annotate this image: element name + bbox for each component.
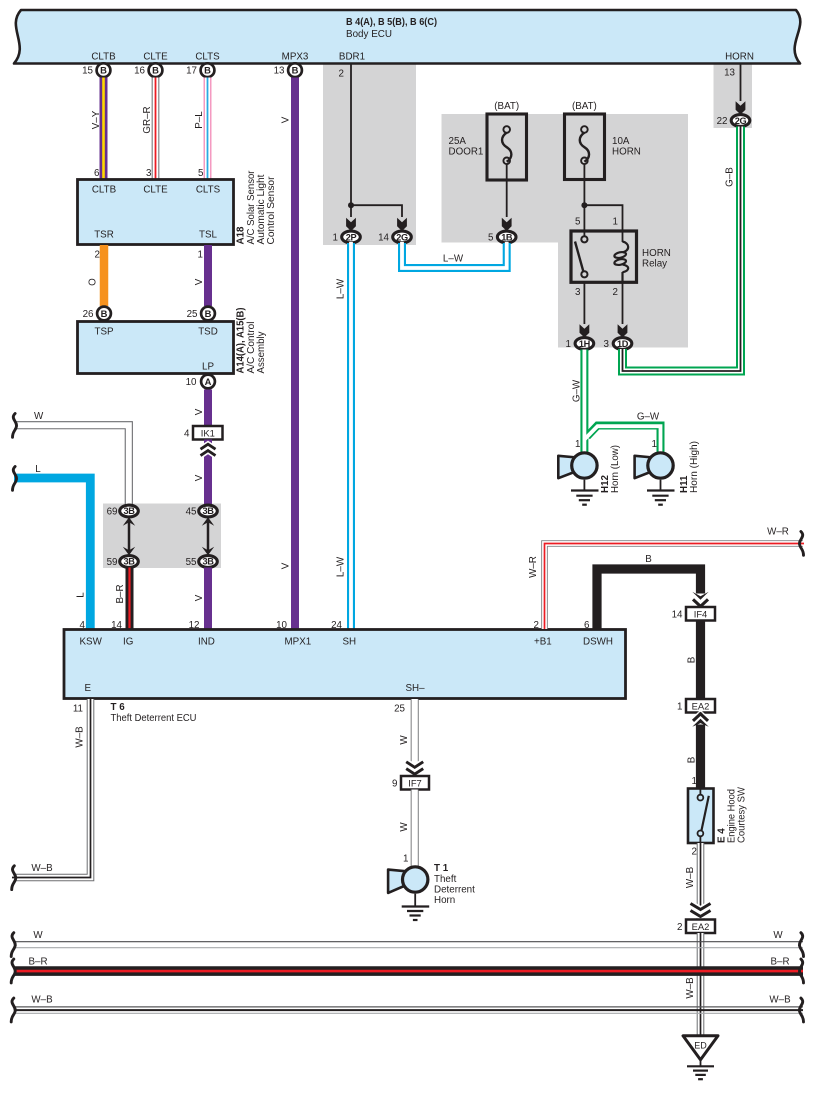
svg-text:1: 1 xyxy=(677,702,682,713)
label A18 A/C Solar Sensor xyxy=(236,170,278,245)
wire B DSWH to IF4 xyxy=(597,569,701,629)
svg-text:B: B xyxy=(687,656,698,663)
A/C control assembly A14 box xyxy=(78,322,234,374)
svg-text:W: W xyxy=(33,930,43,941)
svg-text:B: B xyxy=(100,65,107,76)
svg-text:GR–R: GR–R xyxy=(142,106,153,133)
svg-text:5: 5 xyxy=(488,233,494,244)
svg-text:SH–: SH– xyxy=(406,683,426,694)
svg-text:(BAT): (BAT) xyxy=(572,101,597,112)
pin 10 connector A xyxy=(186,375,215,389)
svg-text:L–W: L–W xyxy=(336,556,347,577)
connector 69 3B xyxy=(107,505,139,517)
svg-text:9: 9 xyxy=(392,779,397,790)
svg-text:B: B xyxy=(101,308,108,319)
svg-text:2G: 2G xyxy=(396,232,408,242)
svg-text:59: 59 xyxy=(107,557,118,568)
wire junction to 2G xyxy=(351,205,402,217)
connector 3 1D xyxy=(604,338,632,351)
wire P-L CLTS to sensor xyxy=(204,78,212,180)
svg-text:3B: 3B xyxy=(203,506,215,516)
svg-text:IG: IG xyxy=(123,637,133,648)
svg-text:2: 2 xyxy=(339,69,344,80)
label HORN Relay xyxy=(642,248,671,270)
svg-text:1D: 1D xyxy=(617,339,629,349)
pin 26 connector B xyxy=(83,307,111,321)
wire W from left break xyxy=(12,425,129,506)
relay coil xyxy=(614,242,628,283)
svg-text:A14(A), A15(B): A14(A), A15(B) xyxy=(236,308,247,374)
svg-text:T 1: T 1 xyxy=(434,863,449,874)
svg-text:W: W xyxy=(399,822,410,832)
svg-text:W–B: W–B xyxy=(75,726,86,748)
arrow into 2P xyxy=(346,218,356,231)
svg-text:2P: 2P xyxy=(346,232,357,242)
svg-text:T 6: T 6 xyxy=(111,702,126,713)
break mark W-B bus left xyxy=(11,998,15,1022)
svg-text:3: 3 xyxy=(575,287,581,298)
ground H11 xyxy=(647,480,675,505)
svg-text:CLTB: CLTB xyxy=(92,185,117,196)
svg-text:W: W xyxy=(773,930,783,941)
connector 55 3B xyxy=(186,556,218,568)
svg-text:1: 1 xyxy=(566,339,571,350)
svg-text:G–W: G–W xyxy=(572,379,583,402)
arrow into 2G horn xyxy=(736,101,746,114)
break mark L left xyxy=(13,467,17,491)
svg-text:TSL: TSL xyxy=(199,230,218,241)
shield gray box relay block xyxy=(558,241,688,348)
svg-text:W–B: W–B xyxy=(769,995,791,1006)
ECU T6 box xyxy=(64,630,626,699)
node relay feed junction xyxy=(581,202,587,208)
svg-text:2: 2 xyxy=(613,287,618,298)
wire G-W 1H to H12 xyxy=(580,350,588,453)
junction IF7 xyxy=(401,776,429,790)
svg-text:1: 1 xyxy=(198,250,203,261)
svg-text:V–Y: V–Y xyxy=(91,110,102,129)
svg-text:45: 45 xyxy=(186,506,197,517)
svg-text:4: 4 xyxy=(80,620,86,631)
wire W-B E4 to EA2 xyxy=(697,843,705,920)
break mark B-R bus left xyxy=(11,959,15,983)
arrow into 2G xyxy=(397,218,407,231)
svg-text:Theft: Theft xyxy=(434,874,457,885)
svg-text:HORN: HORN xyxy=(725,52,754,63)
svg-text:1: 1 xyxy=(575,439,580,450)
svg-text:V: V xyxy=(281,562,292,569)
svg-text:14: 14 xyxy=(111,620,122,631)
chevron splice above IF4 xyxy=(692,592,708,607)
junction IK1 xyxy=(193,426,223,440)
break mark W-R right xyxy=(799,532,803,556)
wire fuse HORN to relay xyxy=(583,164,585,204)
svg-text:W–B: W–B xyxy=(685,977,696,999)
svg-text:4: 4 xyxy=(184,429,190,440)
relay switch contacts xyxy=(575,236,588,277)
chevron splice above EA2 2 xyxy=(691,904,711,917)
chevron splice below EA2 xyxy=(692,713,708,727)
svg-text:L: L xyxy=(76,592,87,598)
connector 1 2P xyxy=(333,231,361,244)
fuse 25A DOOR1 xyxy=(449,101,527,180)
svg-text:11: 11 xyxy=(73,704,83,715)
svg-text:2: 2 xyxy=(534,620,539,631)
label T1 Theft Deterrent Horn xyxy=(434,863,475,906)
wire fuse DOOR1 to 1B xyxy=(506,164,508,217)
svg-text:Deterrent: Deterrent xyxy=(434,885,475,896)
svg-text:14: 14 xyxy=(378,233,389,244)
sensor A18 box xyxy=(78,180,234,245)
svg-text:IF7: IF7 xyxy=(408,778,422,789)
svg-text:5: 5 xyxy=(198,168,204,179)
pin 25 connector B xyxy=(187,307,215,321)
break mark W-B E left xyxy=(12,866,16,890)
wire V LP to IK1 xyxy=(204,390,212,427)
wire V MPX3 trunk to MPX1 xyxy=(291,78,299,630)
svg-text:V: V xyxy=(194,278,205,285)
svg-text:2: 2 xyxy=(95,250,100,261)
svg-text:24: 24 xyxy=(331,620,342,631)
break mark W bus right xyxy=(799,933,803,957)
break mark B-R bus right xyxy=(799,959,803,983)
svg-text:1: 1 xyxy=(692,776,697,787)
wire O TSR to A14 xyxy=(100,245,109,306)
label H11 Horn (High) xyxy=(679,441,700,493)
svg-text:IK1: IK1 xyxy=(201,428,215,439)
node BDR1 junction xyxy=(348,202,354,208)
wire G-W branch core xyxy=(584,426,660,452)
svg-text:L: L xyxy=(35,464,41,475)
splice arrow 69-59 xyxy=(123,517,135,555)
svg-text:O: O xyxy=(88,278,99,286)
wire B-R horizontal bus row xyxy=(14,966,803,976)
svg-text:(BAT): (BAT) xyxy=(494,101,519,112)
arrow into 1D xyxy=(618,324,628,337)
svg-text:3B: 3B xyxy=(203,557,215,567)
wire GR-R CLTE to sensor xyxy=(152,78,160,180)
wire W-B EA2 to ED ground xyxy=(697,933,705,1036)
svg-text:TSD: TSD xyxy=(198,327,218,338)
svg-text:1H: 1H xyxy=(579,339,591,349)
wire BDR1 feed xyxy=(350,64,352,205)
horn H11 xyxy=(635,453,674,478)
svg-text:V: V xyxy=(194,474,205,481)
svg-text:26: 26 xyxy=(83,309,94,320)
ground symbol ED xyxy=(687,1060,714,1080)
svg-text:6: 6 xyxy=(94,168,100,179)
svg-text:W–R: W–R xyxy=(767,527,789,538)
svg-text:10A: 10A xyxy=(612,136,630,147)
splice arrow 45-55 xyxy=(202,517,214,555)
svg-text:14: 14 xyxy=(672,610,683,621)
connector 22 2G xyxy=(717,115,750,128)
fuse 10A HORN xyxy=(565,101,641,180)
svg-text:LP: LP xyxy=(202,362,214,373)
wire relay pin3 to 1H xyxy=(583,282,585,324)
svg-text:22: 22 xyxy=(717,116,728,127)
wire L-W 2G to 1B xyxy=(402,242,507,268)
wire junction to relay pin 5 xyxy=(583,205,585,236)
svg-text:W–R: W–R xyxy=(528,556,539,578)
svg-text:Relay: Relay xyxy=(642,259,667,270)
svg-text:W–B: W–B xyxy=(31,995,53,1006)
svg-text:69: 69 xyxy=(107,506,118,517)
svg-text:1: 1 xyxy=(403,854,408,865)
switch E4 engine hood courtesy box xyxy=(688,789,714,844)
svg-text:BDR1: BDR1 xyxy=(339,52,365,63)
wire L from left break xyxy=(14,478,90,630)
svg-text:16: 16 xyxy=(134,66,145,77)
svg-text:MPX3: MPX3 xyxy=(282,52,309,63)
svg-text:CLTS: CLTS xyxy=(195,52,220,63)
wire W SH- to IF7 xyxy=(411,699,419,776)
wire B EA2 to E4 xyxy=(696,725,705,789)
wire B IF4 to EA2 xyxy=(696,621,705,700)
svg-text:Horn (High): Horn (High) xyxy=(689,441,700,493)
E4 switch contacts xyxy=(698,789,709,844)
svg-text:V: V xyxy=(194,594,205,601)
svg-text:P–L: P–L xyxy=(194,111,205,129)
svg-text:L–W: L–W xyxy=(336,278,347,299)
chevron splice below IK1 xyxy=(201,444,216,455)
shield gray box BDR1 column xyxy=(323,63,416,245)
svg-text:CLTB: CLTB xyxy=(91,52,116,63)
svg-text:L–W: L–W xyxy=(443,254,464,265)
label T6 Theft Deterrent ECU xyxy=(111,702,197,724)
svg-text:SH: SH xyxy=(343,637,357,648)
wire junction to 2P xyxy=(350,205,352,217)
svg-text:MPX1: MPX1 xyxy=(285,637,312,648)
svg-text:A: A xyxy=(205,376,212,387)
wire W-B horizontal bus row xyxy=(14,1007,803,1013)
svg-text:B: B xyxy=(645,554,652,565)
wire W-B E pin to left break xyxy=(12,699,91,878)
svg-text:DOOR1: DOOR1 xyxy=(449,147,484,158)
svg-text:25A: 25A xyxy=(449,136,467,147)
svg-text:1: 1 xyxy=(333,233,338,244)
junction EA2 lower xyxy=(686,920,715,934)
svg-text:CLTE: CLTE xyxy=(143,185,168,196)
svg-text:1: 1 xyxy=(652,439,657,450)
wire G-W core xyxy=(583,350,587,453)
svg-text:B: B xyxy=(152,65,159,76)
svg-text:DSWH: DSWH xyxy=(583,637,613,648)
wire W-R +B1 to right break xyxy=(545,544,805,630)
shield gray box fuse block xyxy=(442,114,689,243)
svg-text:B: B xyxy=(205,308,212,319)
label E4 Engine Hood Courtesy SW xyxy=(717,786,748,843)
svg-text:25: 25 xyxy=(187,309,198,320)
wire W IF7 to T1 xyxy=(411,790,419,868)
svg-text:55: 55 xyxy=(186,557,197,568)
wire V IK1 to 3B xyxy=(204,440,212,506)
wire G-B 2G to 1D xyxy=(623,127,741,372)
svg-text:Courtesy SW: Courtesy SW xyxy=(737,786,748,843)
connector 1 1H xyxy=(566,338,594,351)
wire V 55 3B to IND xyxy=(204,568,212,630)
svg-text:W: W xyxy=(399,735,410,745)
junction IF4 xyxy=(686,607,715,621)
shield gray box 3B junction block xyxy=(103,504,221,569)
svg-text:1: 1 xyxy=(613,217,618,228)
svg-text:G–W: G–W xyxy=(637,412,660,423)
svg-text:CLTE: CLTE xyxy=(143,52,168,63)
shield gray box HORN pin column xyxy=(714,63,753,128)
svg-text:HORN: HORN xyxy=(642,248,671,259)
svg-text:Theft Deterrent ECU: Theft Deterrent ECU xyxy=(111,713,197,724)
svg-text:W–B: W–B xyxy=(31,863,53,874)
svg-text:B–R: B–R xyxy=(770,957,789,968)
wire G-W branch to H11 xyxy=(587,426,661,453)
svg-text:KSW: KSW xyxy=(80,637,103,648)
svg-text:G–B: G–B xyxy=(725,167,736,187)
svg-text:12: 12 xyxy=(189,620,200,631)
svg-text:Horn: Horn xyxy=(434,895,455,906)
svg-text:ED: ED xyxy=(694,1041,707,1051)
svg-text:IF4: IF4 xyxy=(694,609,708,620)
wire V-Y CLTB to sensor xyxy=(100,78,108,180)
wire B-R 59 3B to IG xyxy=(126,568,134,631)
ground H12 xyxy=(571,480,599,505)
svg-text:CLTS: CLTS xyxy=(196,185,221,196)
svg-text:B 4(A), B 5(B), B 6(C): B 4(A), B 5(B), B 6(C) xyxy=(346,17,437,28)
pin 13 connector B MPX3 xyxy=(274,63,302,77)
break mark W bus left xyxy=(11,933,15,957)
connector 5 1B xyxy=(488,231,516,244)
connector 14 2G xyxy=(378,231,411,244)
wire relay pin2 to 1D xyxy=(622,282,624,324)
ground T1 xyxy=(402,894,430,920)
svg-text:3: 3 xyxy=(146,168,152,179)
connector 59 3B xyxy=(107,556,139,568)
svg-text:17: 17 xyxy=(186,66,197,77)
svg-text:Horn (Low): Horn (Low) xyxy=(610,445,621,493)
svg-text:+B1: +B1 xyxy=(534,637,552,648)
wire V TSL to A14 xyxy=(204,245,212,306)
junction EA2 xyxy=(686,699,715,713)
svg-text:V: V xyxy=(281,116,292,123)
svg-text:B: B xyxy=(687,756,698,763)
svg-text:IND: IND xyxy=(198,637,215,648)
svg-text:2: 2 xyxy=(677,922,682,933)
wire junction to relay pin 1 xyxy=(584,205,622,242)
wire L-W 2P to SH xyxy=(347,242,355,629)
svg-text:5: 5 xyxy=(575,217,581,228)
svg-text:2: 2 xyxy=(692,847,697,858)
svg-text:3B: 3B xyxy=(124,557,136,567)
chevron splice above IF7 xyxy=(406,762,423,774)
svg-text:25: 25 xyxy=(394,704,405,715)
svg-text:B: B xyxy=(204,65,211,76)
arrow into 1B xyxy=(502,218,512,231)
connector 45 3B xyxy=(186,505,218,517)
horn H12 xyxy=(558,453,597,478)
ground point ED xyxy=(683,1036,718,1060)
svg-text:6: 6 xyxy=(584,620,590,631)
svg-text:Control Sensor: Control Sensor xyxy=(266,176,277,245)
svg-text:B–R: B–R xyxy=(28,957,47,968)
svg-text:2G: 2G xyxy=(735,116,747,126)
horn T1 theft deterrent xyxy=(388,867,428,893)
svg-text:3: 3 xyxy=(604,339,610,350)
svg-text:B: B xyxy=(292,65,299,76)
svg-text:Assembly: Assembly xyxy=(256,331,267,373)
pin 16 connector B xyxy=(134,63,162,77)
svg-text:10: 10 xyxy=(276,620,287,631)
svg-text:W–B: W–B xyxy=(685,866,696,888)
svg-text:1B: 1B xyxy=(501,232,513,242)
svg-text:13: 13 xyxy=(724,68,735,79)
relay HORN box xyxy=(571,231,637,282)
svg-text:EA2: EA2 xyxy=(692,921,710,932)
svg-text:Body ECU: Body ECU xyxy=(346,29,392,40)
svg-text:TSP: TSP xyxy=(94,327,114,338)
svg-text:V: V xyxy=(194,408,205,415)
break mark W left xyxy=(13,414,17,438)
svg-text:A18: A18 xyxy=(236,226,247,245)
svg-text:10: 10 xyxy=(186,377,197,388)
label H12 Horn (Low) xyxy=(600,445,621,493)
svg-text:W: W xyxy=(34,411,44,422)
break mark W-B bus right xyxy=(799,998,803,1022)
svg-text:15: 15 xyxy=(82,66,93,77)
label A14 A/C Control Assembly xyxy=(236,308,268,374)
wire W horizontal bus row xyxy=(14,942,803,948)
wire HORN pin feed xyxy=(740,64,742,102)
pin 15 connector B xyxy=(82,63,110,77)
svg-text:3B: 3B xyxy=(124,506,136,516)
ECU banner B4/B5/B6 Body ECU xyxy=(14,10,800,64)
svg-text:HORN: HORN xyxy=(612,147,641,158)
svg-text:TSR: TSR xyxy=(94,230,114,241)
svg-text:B–R: B–R xyxy=(115,584,126,603)
arrow into 1H xyxy=(580,324,590,337)
svg-text:E: E xyxy=(85,683,92,694)
svg-text:13: 13 xyxy=(274,66,285,77)
pin 17 connector B xyxy=(186,63,214,77)
